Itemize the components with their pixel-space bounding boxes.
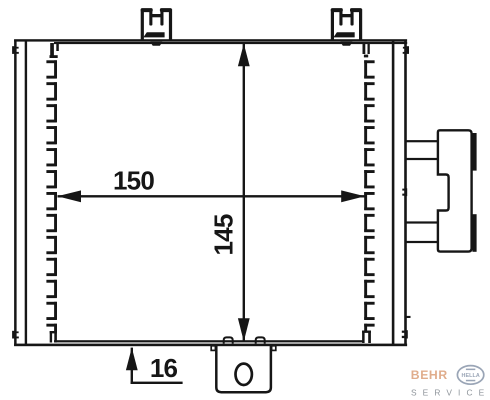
connector right bar bottom xyxy=(472,214,476,252)
right fin comb xyxy=(362,42,375,343)
dimension 150 left arrowhead xyxy=(57,190,81,202)
dimension 150 line xyxy=(58,195,366,197)
connector block outline xyxy=(438,130,472,251)
top mounting clip right xyxy=(331,8,362,46)
tab side notch left xyxy=(211,346,215,351)
bottom mounting tab xyxy=(211,337,276,392)
tab bump left xyxy=(224,337,233,343)
left fin comb xyxy=(46,43,58,343)
svg-text:HELLA: HELLA xyxy=(461,373,479,379)
connector right bar top xyxy=(472,133,476,171)
right tank middle clamp tick xyxy=(402,188,407,196)
connector stub lines xyxy=(407,140,439,243)
dimension 150 right arrowhead xyxy=(341,190,365,202)
tab hole xyxy=(236,364,252,385)
left plate top clamp tick xyxy=(12,46,19,54)
svg-text:16: 16 xyxy=(150,353,178,383)
dimension 16 shaft xyxy=(131,348,133,384)
svg-text:BEHR: BEHR xyxy=(411,368,448,382)
HELLA logo ellipse xyxy=(457,366,483,385)
top mounting clip left xyxy=(141,8,172,46)
tab bump right xyxy=(256,337,265,343)
dimension 145 bottom arrowhead xyxy=(238,318,250,341)
right tank top clamp tick xyxy=(403,46,409,54)
dimension 145 top arrowhead xyxy=(238,44,250,67)
right tank bottom clamp tick xyxy=(402,330,408,338)
core bottom line xyxy=(14,340,407,346)
svg-text:SERVICE: SERVICE xyxy=(411,388,490,398)
right tank small stub xyxy=(406,316,411,318)
dimension 16 leader xyxy=(131,382,183,384)
left plate bottom clamp tick xyxy=(12,331,19,339)
dimension 145 line xyxy=(243,44,245,342)
core top line xyxy=(14,39,407,44)
dimension 16 arrowhead xyxy=(126,348,138,371)
right tank xyxy=(392,40,407,346)
left side plate xyxy=(14,40,27,347)
tab side notch right xyxy=(272,346,276,351)
svg-text:150: 150 xyxy=(113,166,154,196)
svg-text:145: 145 xyxy=(209,214,239,255)
